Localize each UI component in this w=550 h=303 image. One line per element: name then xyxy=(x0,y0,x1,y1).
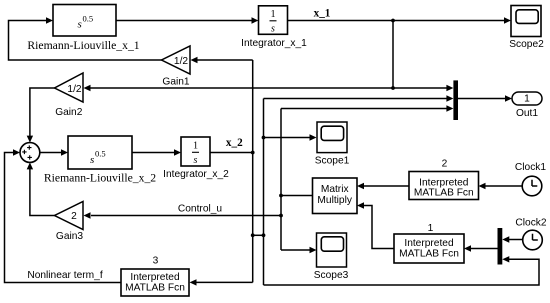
svg-text:1/2: 1/2 xyxy=(67,84,81,95)
label x_1 xyxy=(314,7,331,19)
node Matrix Multiply output junction xyxy=(279,194,283,198)
svg-text:0.5: 0.5 xyxy=(95,149,106,159)
wire Clock1 to Interpreted MATLAB Fcn 2 xyxy=(479,183,523,189)
svg-text:1: 1 xyxy=(270,9,275,20)
wire Gain3 output to sum bottom xyxy=(27,162,55,215)
gain Gain2 xyxy=(55,73,84,118)
wire Riemann-Liouville_x_2 to Integrator_x_2 xyxy=(132,149,181,155)
svg-text:Scope3: Scope3 xyxy=(314,270,349,281)
svg-text:0.5: 0.5 xyxy=(83,14,94,24)
block Interpreted MATLAB Fcn 1 xyxy=(394,234,464,263)
wire Riemann-Liouville_x_1 to Integrator_x_1 xyxy=(116,17,259,23)
clock Clock2 xyxy=(515,218,546,250)
wire x_2 to Scope1 xyxy=(264,134,317,140)
scope Scope2 xyxy=(509,6,544,51)
mux Mux2 xyxy=(498,228,503,265)
svg-text:Gain2: Gain2 xyxy=(55,107,83,118)
block Integrator_x_2 xyxy=(163,137,229,180)
svg-text:Scope1: Scope1 xyxy=(315,156,350,167)
svg-text:MATLAB Fcn: MATLAB Fcn xyxy=(414,188,474,199)
label 3 above Interpreted MATLAB Fcn 3 xyxy=(153,256,159,267)
wire x_2 to Mux1 input 2 xyxy=(264,95,454,101)
block Matrix Multiply U_mm xyxy=(313,178,358,214)
wire Matrix Multiply output xyxy=(281,195,313,197)
node x_2 junction xyxy=(251,151,255,155)
svg-text:Riemann-Liouville_x_2: Riemann-Liouville_x_2 xyxy=(44,172,156,185)
svg-text:Clock1: Clock1 xyxy=(515,162,546,173)
wire sum to Riemann-Liouville_x_2 xyxy=(40,149,68,155)
wire Nonlinear term_f to sum left xyxy=(5,149,122,282)
svg-text:Clock2: Clock2 xyxy=(515,218,546,229)
svg-text:x_2: x_2 xyxy=(226,137,243,149)
svg-text:Control_u: Control_u xyxy=(178,204,222,215)
svg-text:1: 1 xyxy=(524,94,530,105)
wire x_2 vertical trunk A xyxy=(252,60,254,282)
svg-text:Integrator_x_2: Integrator_x_2 xyxy=(163,169,229,180)
block Riemann-Liouville_x_1 xyxy=(27,5,139,53)
label 1 above Interpreted MATLAB Fcn 1 xyxy=(428,223,434,234)
label Nonlinear term_f xyxy=(27,270,102,281)
svg-text:3: 3 xyxy=(153,256,159,267)
wire Control_u to Scope3 xyxy=(281,247,317,253)
svg-text:MATLAB Fcn: MATLAB Fcn xyxy=(399,248,459,259)
svg-text:Scope2: Scope2 xyxy=(509,39,544,50)
label x_2 xyxy=(226,137,243,149)
wire Mux1 output to Out1 xyxy=(458,95,512,101)
svg-text:s: s xyxy=(78,19,82,31)
gain Gain3 xyxy=(55,202,84,243)
wire Control_u to Mux1 input 3 xyxy=(281,105,453,111)
svg-text:MATLAB Fcn: MATLAB Fcn xyxy=(125,283,185,294)
svg-text:1: 1 xyxy=(428,223,434,234)
svg-text:Nonlinear term_f: Nonlinear term_f xyxy=(27,270,102,281)
sum block xyxy=(20,143,40,163)
scope Scope1 xyxy=(315,122,350,167)
wire Control_u vertical trunk xyxy=(280,109,282,251)
wire Gain2 output to sum top xyxy=(27,88,55,143)
mux Mux1 xyxy=(453,80,458,120)
svg-text:1: 1 xyxy=(193,141,198,152)
outport Out1 xyxy=(512,92,542,119)
wire x_2 from Integrator_x_2 to junction xyxy=(210,152,253,154)
svg-text:s: s xyxy=(194,155,198,166)
label 2 above Interpreted MATLAB Fcn 2 xyxy=(442,159,448,170)
label Control_u xyxy=(178,204,222,215)
node x_1 junction xyxy=(391,19,395,23)
svg-text:Multiply: Multiply xyxy=(317,195,352,206)
svg-text:s: s xyxy=(271,24,275,35)
node Scope1 tap xyxy=(262,136,266,140)
wire x_2 to Interpreted MATLAB Fcn 3 xyxy=(190,279,253,285)
scope Scope3 xyxy=(314,233,349,281)
svg-text:Integrator_x_1: Integrator_x_1 xyxy=(241,38,307,49)
wire bridge junction A-B xyxy=(253,234,264,236)
block Riemann-Liouville_x_2 xyxy=(44,136,156,185)
gain Gain1 xyxy=(162,46,191,88)
svg-text:Gain1: Gain1 xyxy=(162,77,190,88)
block Interpreted MATLAB Fcn 2 xyxy=(409,172,479,200)
wire x_1 drop xyxy=(392,21,394,89)
svg-text:Gain3: Gain3 xyxy=(56,231,84,242)
svg-text:s: s xyxy=(90,154,94,166)
wire Interpreted MATLAB Fcn 1 to Matrix Multiply xyxy=(357,202,394,248)
wire x_2 bottom run to Mux2 xyxy=(264,256,540,285)
wire Clock2 to Mux2 xyxy=(502,236,522,242)
svg-text:Out1: Out1 xyxy=(516,108,538,119)
wire Interpreted MATLAB Fcn 2 to Matrix Multiply xyxy=(357,183,409,189)
wire Mux2 output to Interpreted MATLAB Fcn 1 xyxy=(464,245,498,251)
block Integrator_x_1 xyxy=(241,6,307,49)
svg-text:x_1: x_1 xyxy=(314,7,331,19)
clock Clock1 xyxy=(515,162,546,196)
wire Control_u to Gain3 xyxy=(84,212,282,218)
node Control_u junction xyxy=(279,214,283,218)
wire x_1 row to Gain2 and Mux1 input 1 xyxy=(84,85,454,91)
wire x_2 to Gain1 xyxy=(191,57,253,63)
node bridge right xyxy=(262,233,266,237)
block Interpreted MATLAB Fcn 3 xyxy=(121,269,189,296)
svg-text:1/2: 1/2 xyxy=(174,56,188,67)
node bridge left xyxy=(251,233,255,237)
wire Gain1 output feedback to Riemann-Liouville_x_1 xyxy=(9,17,162,60)
svg-text:Riemann-Liouville_x_1: Riemann-Liouville_x_1 xyxy=(27,39,139,52)
svg-text:2: 2 xyxy=(71,211,77,222)
node x_1 row junction xyxy=(391,86,395,90)
wire x_2 vertical trunk B xyxy=(263,99,265,286)
svg-text:Interpreted: Interpreted xyxy=(130,272,180,283)
svg-text:Interpreted: Interpreted xyxy=(404,238,454,249)
svg-text:2: 2 xyxy=(442,159,448,170)
svg-text:Matrix: Matrix xyxy=(321,184,349,195)
wire x_1 to Scope2 xyxy=(288,17,512,23)
